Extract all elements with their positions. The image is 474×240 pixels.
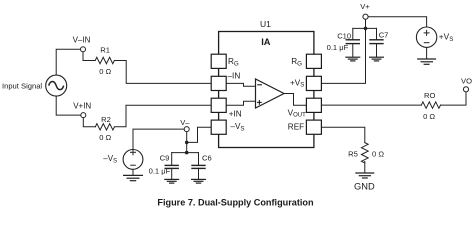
svg-text:Figure 7. Dual-Supply Configur: Figure 7. Dual-Supply Configuration bbox=[157, 197, 314, 207]
svg-text:R5: R5 bbox=[348, 149, 358, 158]
svg-text:+IN: +IN bbox=[229, 109, 242, 118]
svg-text:V+IN: V+IN bbox=[73, 102, 91, 111]
svg-text:0 Ω: 0 Ω bbox=[99, 67, 111, 76]
svg-text:V–IN: V–IN bbox=[73, 35, 91, 44]
svg-text:0 Ω: 0 Ω bbox=[99, 133, 111, 142]
svg-text:RO: RO bbox=[424, 91, 435, 100]
svg-text:R2: R2 bbox=[101, 115, 111, 124]
svg-text:V–: V– bbox=[180, 118, 190, 127]
svg-text:C7: C7 bbox=[379, 31, 389, 40]
svg-text:Input Signal: Input Signal bbox=[2, 81, 42, 90]
svg-text:C9: C9 bbox=[160, 153, 170, 162]
svg-text:R1: R1 bbox=[100, 45, 110, 54]
svg-text:VO: VO bbox=[461, 76, 472, 85]
svg-text:U1: U1 bbox=[260, 19, 271, 29]
svg-text:–IN: –IN bbox=[228, 71, 241, 80]
svg-text:C10: C10 bbox=[337, 31, 351, 40]
svg-text:0.1 μF: 0.1 μF bbox=[149, 167, 171, 176]
svg-text:GND: GND bbox=[354, 182, 375, 192]
svg-text:0.1 μF: 0.1 μF bbox=[327, 43, 349, 52]
svg-text:C6: C6 bbox=[202, 153, 212, 162]
svg-text:0 Ω: 0 Ω bbox=[372, 149, 384, 158]
svg-text:V+: V+ bbox=[360, 2, 370, 11]
svg-text:0 Ω: 0 Ω bbox=[423, 112, 435, 121]
svg-text:REF: REF bbox=[288, 123, 304, 132]
svg-text:IA: IA bbox=[261, 37, 271, 47]
